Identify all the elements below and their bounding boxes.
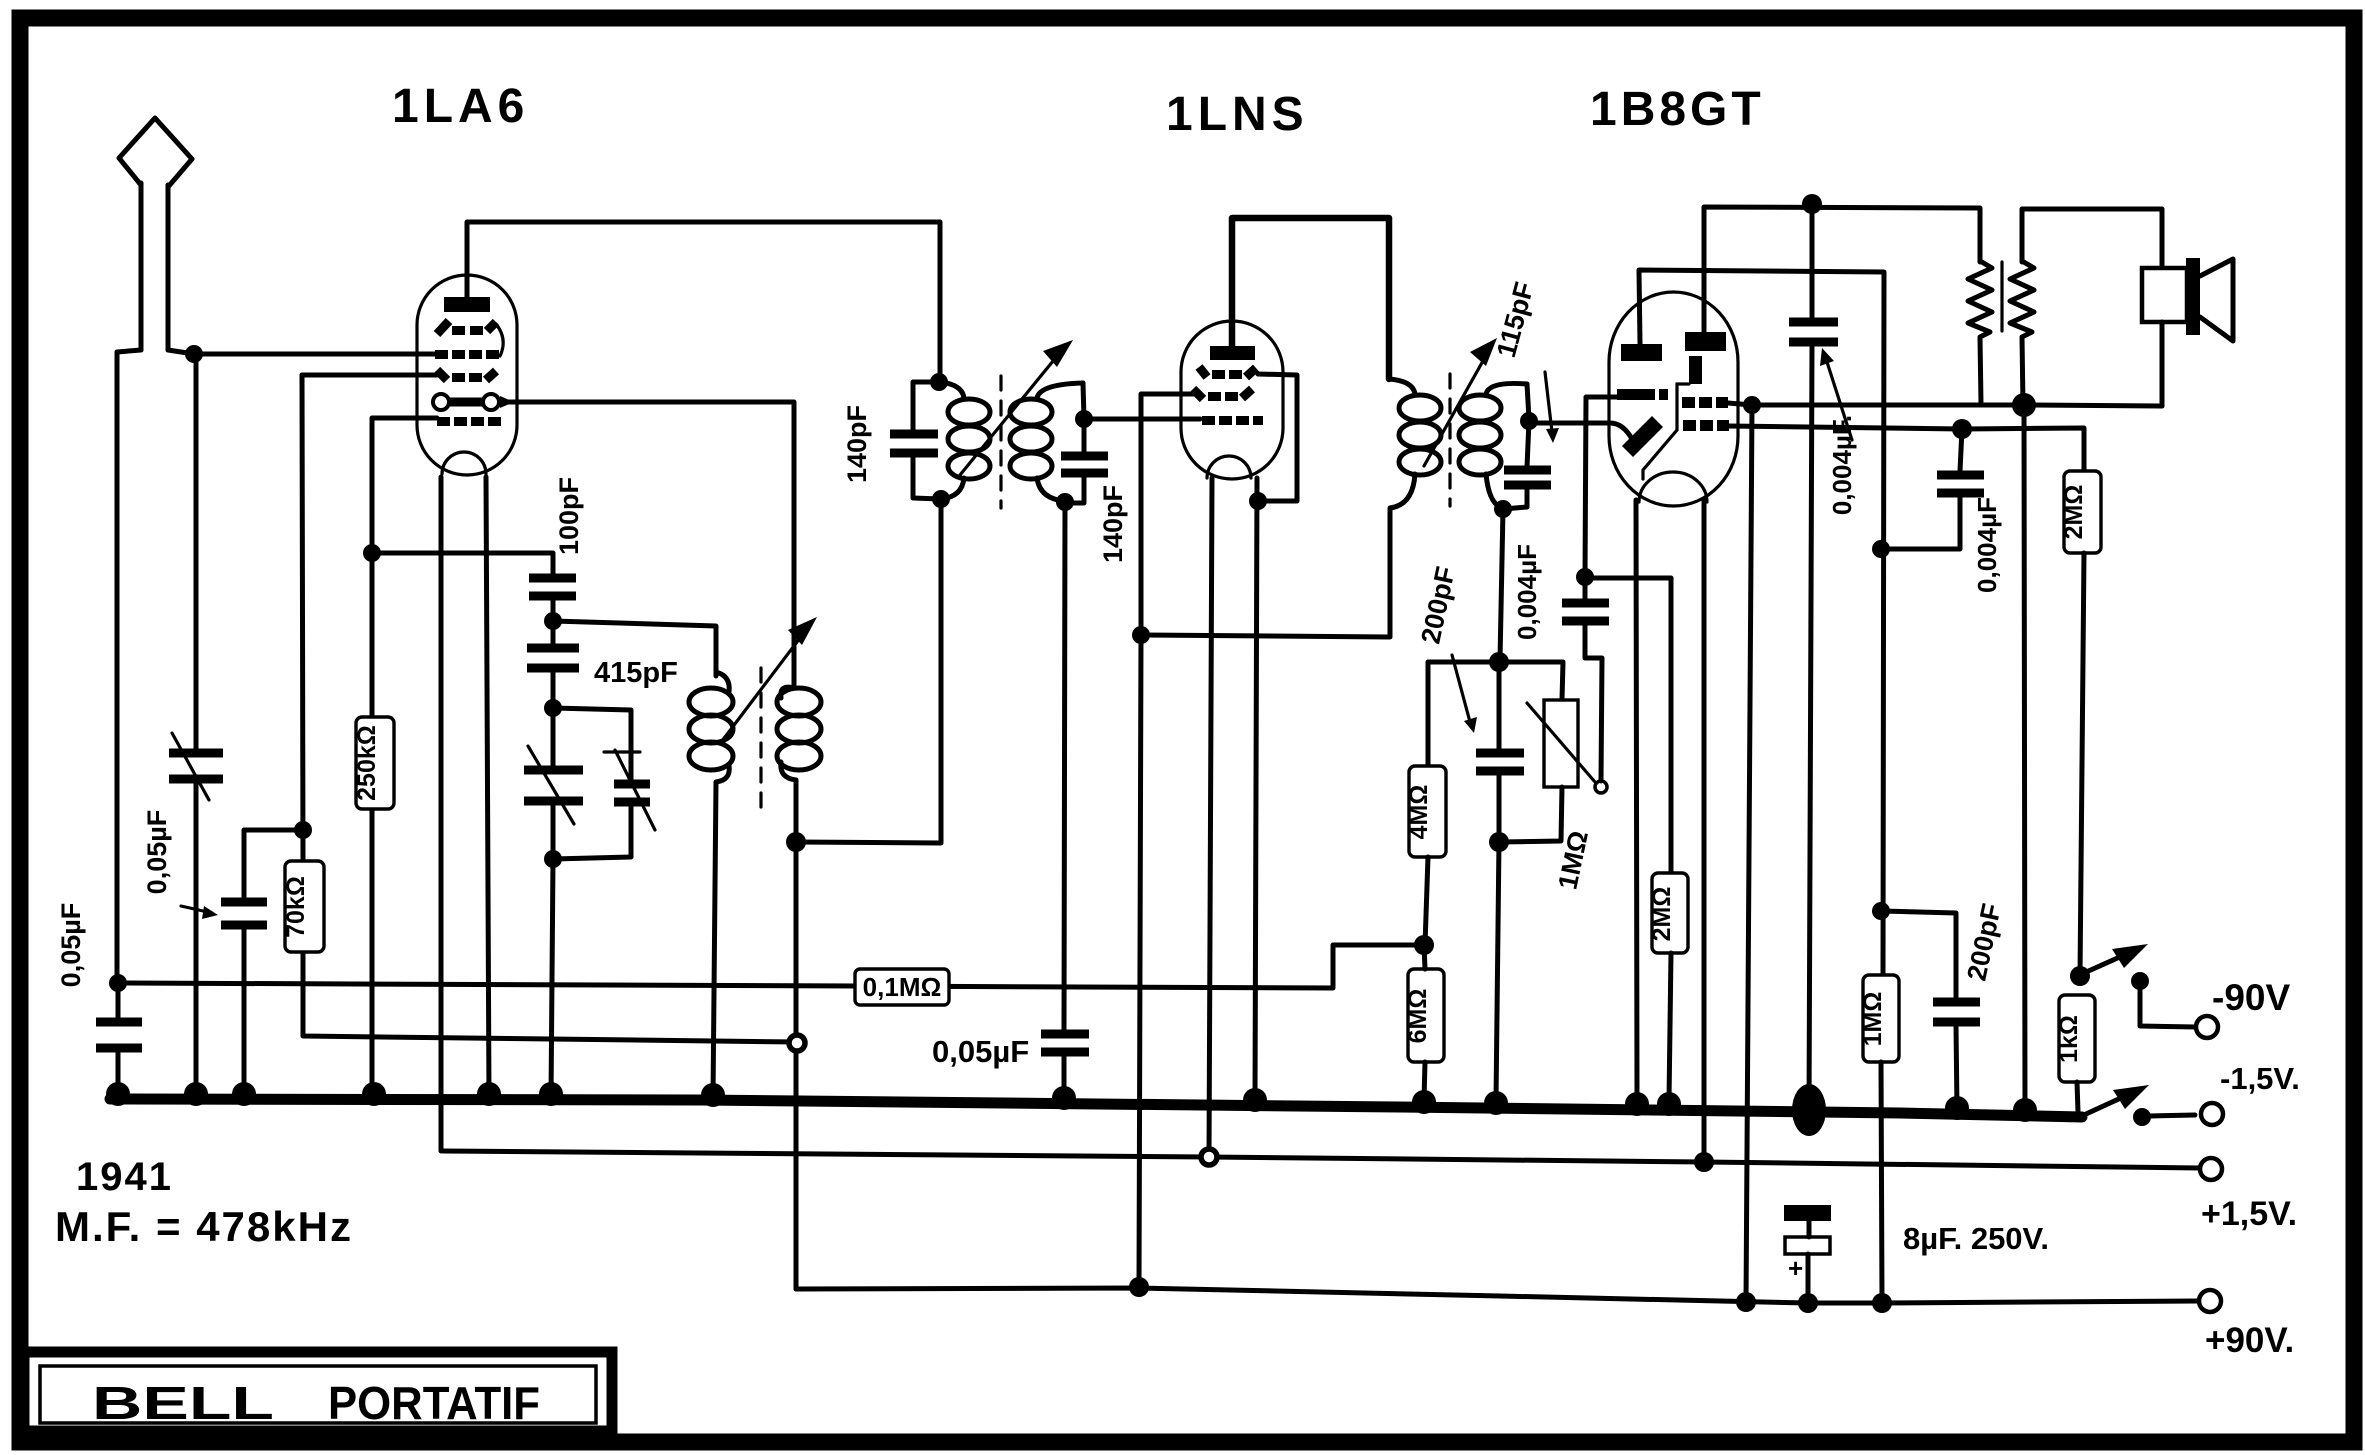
wire R3 bottom to node Q [1425,857,1428,945]
svg-text:1B8GT: 1B8GT [1590,83,1765,136]
wire C2 branch (x244) [244,830,303,1098]
T4 secondary (zigzag) [2010,261,2034,405]
wire T2 secondary top to node J [1083,383,1084,419]
svg-text:-1,5V.: -1,5V. [2220,1061,2300,1096]
bus junction blobs [106,1082,2037,1136]
resistor R9 1kOhm [2055,995,2095,1082]
node K (T2 secondary bottom) [1056,493,1074,511]
V3 plate 2 bar [1685,332,1726,351]
wire V2 screen to B+ feeder [1141,394,1198,633]
resistor R4 6MOhm [1404,969,1444,1062]
wire T4 secondary top to speaker [2022,209,2162,267]
V3 plate 1 bar [1621,344,1662,361]
node C (100pF junction) [363,544,381,562]
label 200pF (rotated) with arrow [1415,564,1477,733]
T2 secondary [1010,383,1083,501]
node T [1743,396,1761,414]
wire V2 grid1 to cathode lead [1258,374,1297,501]
svg-text:0,1MΩ: 0,1MΩ [863,972,942,1002]
capacitor C15 200pF [1881,911,1980,1110]
svg-text:140pF: 140pF [842,405,872,483]
T3 tuning arrow [1424,338,1497,466]
capacitor C16 8uF electrolytic [1784,1205,1831,1302]
switch S2 (A- switch) [2086,1085,2195,1126]
node on +1,5V rail (V3 filament) [1694,1152,1714,1172]
wire node J to 1LNS grid [1084,417,1200,422]
wire R7 bottom to +90V rail [1881,1062,1882,1302]
svg-text:0,004µF: 0,004µF [1972,497,2002,593]
node D [544,612,562,630]
T3 secondary [1459,383,1527,508]
V3 right grid row 1 [1682,397,1728,408]
svg-text:+: + [1788,1253,1803,1283]
node +90V (B+ feeder) [1129,1277,1149,1297]
node R (volume top... bottom junction) [1489,832,1509,852]
node W (on 1M column) [1872,540,1890,558]
wire T1 right winding top to 1LA6 filament [489,402,794,688]
node B (70k top) [294,821,312,839]
tube V2 1LNS envelope [1181,321,1283,479]
V2 plate lead (thick) to IFT3 primary top [1232,218,1389,379]
oscillator transformer T1 left winding [689,672,733,1098]
node X (200pF tap) [1872,902,1890,920]
wire node Q to R4 to bus [1424,945,1425,1100]
resistor R2 250kOhm [353,717,394,809]
wire node F down to bus [551,859,553,1098]
capacitor C5 tuning (variable, main) [524,708,583,857]
terminal +1,5V [2200,1158,2222,1180]
wire R8 bottom to switch node [2080,553,2084,976]
wire node S to grid leak R6 [1585,578,1671,873]
T2 core [999,376,1002,508]
node I (T2 primary bottom) [932,490,950,508]
node P (AVC divider top) [1489,652,1509,672]
svg-text:100pF: 100pF [554,477,584,555]
capacitor C13 0,004uF (plate bypass) [1789,204,1838,1110]
svg-text:-90V: -90V [2212,977,2290,1018]
terminal -90V [2196,1016,2218,1038]
resistor R1 70kOhm [282,861,324,952]
oscillator transformer T1 tuning arrow [722,617,817,741]
tube V3 1B8GT envelope [1609,292,1738,506]
capacitor C6 trimmer [553,750,655,859]
svg-text:2MΩ: 2MΩ [2060,485,2088,540]
V2 grid row 2 [1193,389,1252,401]
svg-text:0,05µF: 0,05µF [142,810,172,895]
node G (osc plate junction) [786,832,806,852]
V1 filament [433,394,514,410]
V3 screen bar [1689,356,1702,384]
node J (T2 secondary top) [1075,410,1093,428]
capacitor C8 140pF (T2 secondary) [1061,419,1108,503]
chassis bus (A- rail) [110,1099,2082,1117]
capacitor C7 140pF (T2 primary) [890,382,941,499]
V1 grid row 3 [437,370,496,382]
wire node D to osc coil top [553,621,716,676]
V3 right grid row 2 [1683,420,1729,431]
resistor R6 2MOhm (grid leak) [1648,873,1688,953]
svg-text:+90V.: +90V. [2205,1321,2294,1360]
svg-text:1LA6: 1LA6 [392,80,529,133]
svg-text:8µF. 250V.: 8µF. 250V. [1903,1221,2049,1256]
node E [544,699,562,717]
tube V1 1LA6 envelope [417,275,517,475]
capacitor C11 200pF [1476,662,1524,840]
V2 grid row 3 [1202,416,1263,425]
wire node Y down to switch column [2024,405,2025,1112]
svg-text:1941: 1941 [76,1155,173,1199]
wire grid-cap line down to bus (x196) [194,354,199,1098]
title box BELL PORTATIF [24,1352,612,1431]
V2 plate bar [1210,346,1255,360]
node F (osc tank bottom) [544,850,562,868]
V2 bottom leads [1209,478,1257,1157]
wire common line A [1752,405,2162,406]
svg-text:BELL: BELL [92,1377,274,1429]
IF transformer T2 primary [939,382,990,499]
node L (V2 cathode junction) [1249,492,1267,510]
wire node G to IFT1 primary bottom [796,501,941,843]
V1 plate bar [444,297,490,312]
capacitor C10 115pF [1504,421,1551,509]
potentiometer R5 wiper arrow [1527,703,1607,793]
node on +1,5V rail (V2 filament) [1201,1149,1217,1165]
resistor R8 2MOhm (output grid) [2060,471,2101,553]
node V (C14 top junction) [1952,419,1972,439]
wire node T down to +90V rail [1746,405,1752,1302]
wire node R down to bus [1496,842,1499,1100]
wire node N to V3 diode plate [1529,423,1632,439]
potentiometer R5 1MOhm body [1544,700,1578,787]
wire node S up to V3 grid [1585,397,1620,577]
wire pot bottom to node R [1499,787,1562,842]
node +90V (diode rail) [1736,1292,1756,1312]
output transformer T4 primary (zigzag) [1968,261,1992,404]
node Y (speaker/output common) [2012,393,2036,417]
svg-text:250kΩ: 250kΩ [353,725,381,801]
svg-text:140pF: 140pF [1098,485,1128,563]
wire node P to potentiometer top [1499,662,1563,700]
terminal +90V [2199,1290,2221,1312]
T2 tuning arrow [960,340,1073,475]
node N (detector grid node) [1520,412,1538,430]
V3 plate1 lead to +90V column [1639,270,1884,975]
V1 plate lead to top [467,222,940,380]
resistor R10 0,1MOhm [855,969,949,1005]
speaker LS1 [2142,258,2233,406]
+1,5V rail [443,1151,2199,1168]
oscillator transformer T1 right winding [777,687,821,840]
resistor R3 4MOhm [1405,766,1446,857]
node H (T2 primary top) [930,373,948,391]
capacitor C12 0,004uF (coupling) [1562,603,1609,621]
wire node E to trimmer top [553,708,631,781]
antenna [117,118,194,981]
wire C12 top to node S [1583,579,1588,601]
node +90V (8uF) [1798,1293,1818,1313]
node Z (battery switch node) [2070,966,2090,986]
wire 415pF to node E [551,621,556,706]
junction ring (70k line joins osc line) [789,1035,805,1051]
svg-text:PORTATIF: PORTATIF [328,1377,540,1429]
wire node P to R3 top [1428,662,1499,766]
node U (plate bypass junction) [1802,194,1822,214]
pointer line for 115pF [1545,372,1559,443]
wire R9 bottom to bus end [2077,1082,2078,1112]
V1 grid row 1 [437,321,503,356]
resistor R7 1MOhm [1859,975,1899,1062]
svg-text:0,004µF: 0,004µF [1512,544,1542,640]
node AVC start [109,974,127,992]
+90V rail [796,1288,2198,1303]
IF transformer T3 primary [1389,379,1441,508]
V3 diode row wire to node T [1728,403,1752,405]
svg-text:0,05µF: 0,05µF [56,903,86,988]
node O (T3 secondary bottom) [1494,500,1512,518]
capacitor C2 0,05uF [221,902,267,925]
V3 internal link [1643,384,1689,479]
pointer arrow to C2 [181,906,218,919]
wire 100pF to node D [551,598,556,619]
T4 core [2000,262,2003,331]
capacitor C9 0,05uF (AVC) [1041,1034,1089,1052]
svg-text:+1,5V.: +1,5V. [2201,1195,2297,1233]
svg-text:0,004µF.: 0,004µF. [1827,415,1857,515]
V3 grid bar (AF grid) [1617,389,1668,400]
svg-text:4MΩ: 4MΩ [1405,785,1433,840]
oscillator transformer T1 core [759,668,762,818]
node A antenna junction [185,345,203,363]
T3 core [1448,374,1451,506]
V3 diode plate (slanted) [1622,416,1663,457]
wire node C to 100pF [372,553,553,574]
V1 grid row E [437,417,501,426]
V1 grid row 2 [435,350,499,359]
V3 screen row wire to 2M and OPT tap [1729,426,2084,471]
capacitor C1 0,05uF variable (antenna series) [169,733,223,800]
label 0,004uF. (plate bypass, rotated) with arrow [1820,348,1857,515]
V3 bottom leads [1636,500,1704,1162]
svg-text:415pF: 415pF [594,657,678,689]
wire node M down to +90V rail [1139,635,1141,1286]
V2 grid row 1 [1199,367,1256,379]
capacitor C4 415pF [527,648,579,668]
node M (B+ feeder corner) [1132,626,1150,644]
V3 plate2 lead to OPT [1704,207,1980,332]
svg-text:1MΩ: 1MΩ [1859,992,1887,1047]
wire pot wiper to C12 [1585,624,1602,781]
wire node O down to node P [1500,509,1503,660]
node S (AF grid node) [1576,568,1594,586]
svg-text:6MΩ: 6MΩ [1404,989,1432,1044]
wire 1LA6 grid3 to 70k (x303) [302,375,797,1042]
capacitor C17 0,05uF (bottom left) [96,983,142,1098]
wire T3 secondary top to node N [1527,384,1529,419]
svg-text:0,05µF: 0,05µF [932,1034,1029,1069]
svg-text:M.F. = 478kHz: M.F. = 478kHz [55,1203,353,1250]
capacitor C14 0,004uF (tone) [1881,429,1984,549]
wire node G down to +90V rail [794,842,799,1289]
node +90V (1M) [1872,1293,1892,1313]
svg-text:1LNS: 1LNS [1166,88,1309,141]
svg-text:70kΩ: 70kΩ [282,876,310,938]
node Q (AVC tap) [1414,935,1434,955]
terminal -1,5V [2201,1103,2223,1125]
wire antenna to 1LA6 grid2 [194,352,435,357]
wire node M to IFT3 primary bottom [1141,510,1390,637]
V1 bottom leads [441,477,489,1151]
svg-text:2MΩ: 2MΩ [1648,887,1676,942]
switch S1 (B- switch) [2084,944,2196,1027]
wire node K down to C9 and bus [1064,502,1065,1098]
capacitor C3 100pF [529,578,576,596]
wire 1LA6 rowE / 250k branch (x372) [372,418,437,1098]
svg-text:1kΩ: 1kΩ [2055,1015,2083,1063]
AVC line with R10 [118,945,1424,988]
wire R6 bottom to bus [1669,953,1671,1100]
